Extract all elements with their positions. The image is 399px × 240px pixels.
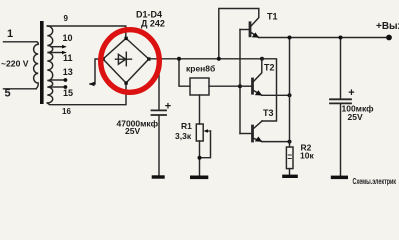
svg-text:T3: T3 — [263, 108, 274, 118]
wire main positive rail — [149, 58, 262, 60]
node bridge right — [147, 57, 150, 60]
node KREN output / base bus — [238, 84, 242, 88]
ground R1 — [190, 176, 208, 180]
transistor T3 base bar — [251, 126, 254, 141]
T3 emitter arrow — [255, 137, 262, 142]
transistor T2 collector — [253, 59, 261, 82]
svg-text:10: 10 — [63, 33, 73, 43]
wire T2 emitter to output bus — [262, 94, 290, 96]
tap 10 arrow — [62, 45, 67, 49]
node T1 collector on rail — [217, 57, 221, 61]
transistor T1 base wire — [240, 29, 249, 31]
node T2 emitter junction — [288, 93, 292, 97]
tap 15 end dot — [64, 85, 68, 89]
wire KREN input drop — [179, 59, 190, 86]
node bridge top — [124, 37, 127, 40]
transistor T3 base wire — [240, 133, 251, 135]
wire tap 9 to bridge top — [47, 26, 126, 38]
svg-text:Схемы.электрик: Схемы.электрик — [353, 177, 397, 186]
R2 bottom wire — [289, 169, 291, 175]
T2 emitter arrow — [255, 90, 262, 95]
node C2 on output line — [339, 36, 343, 40]
wire primary terminal 5 — [4, 88, 37, 90]
R1 wiper loop wire — [200, 131, 211, 158]
node KREN drop on rail — [177, 57, 181, 61]
tap 11 stub — [51, 52, 62, 54]
transistor T3 emitter — [253, 138, 262, 141]
node C1 on rail — [157, 57, 161, 61]
svg-text:+Вых: +Вых — [376, 21, 399, 32]
tap 13 end dot — [64, 78, 68, 82]
transistor T1 emitter — [251, 32, 259, 37]
wire output line — [259, 37, 389, 39]
svg-text:5: 5 — [5, 88, 11, 100]
svg-text:1: 1 — [7, 28, 13, 40]
svg-text:R1: R1 — [181, 121, 192, 131]
transistor T3 collector — [253, 121, 262, 129]
node output bus top — [288, 36, 292, 40]
wire KREN ground lead — [199, 95, 201, 124]
node R1 wiper junction — [198, 156, 202, 160]
svg-text:+: + — [348, 87, 354, 99]
ground C2 — [331, 176, 348, 180]
tap 11 arrow — [62, 51, 67, 55]
bridge rectifier D1-D4 diamond — [103, 38, 149, 83]
transformer secondary winding — [47, 26, 52, 103]
wire T3 collector loop — [262, 59, 277, 121]
ground C1 — [152, 175, 165, 178]
capacitor C2 bottom wire — [340, 104, 342, 175]
resistor R1 body — [196, 124, 203, 141]
svg-text:9: 9 — [64, 14, 69, 23]
node T3 emitter junction — [288, 140, 292, 144]
svg-text:10к: 10к — [300, 151, 314, 161]
ground R2 — [282, 175, 298, 178]
regulator U1 KREN8B box — [190, 78, 209, 95]
svg-text:13: 13 — [63, 67, 73, 77]
transistor T1 collector — [219, 9, 259, 59]
bridge diode symbol — [116, 52, 132, 65]
tap 13 stub — [51, 79, 64, 81]
node bridge bottom — [124, 81, 127, 84]
node bridge left — [101, 57, 104, 60]
svg-text:~220 V: ~220 V — [1, 58, 29, 68]
wire output bus vertical — [289, 38, 291, 148]
wire tap 16 to bridge bottom — [47, 83, 126, 105]
transistor T1 base bar — [249, 23, 252, 36]
R2 body marks — [288, 155, 291, 159]
resistor R2 body — [286, 147, 293, 169]
svg-text:T2: T2 — [264, 63, 275, 73]
svg-text:15: 15 — [63, 88, 73, 98]
wire base bus vertical — [239, 30, 241, 134]
svg-text:Д 242: Д 242 — [141, 18, 165, 28]
svg-text:T1: T1 — [267, 12, 278, 22]
svg-text:25V: 25V — [348, 112, 363, 122]
red annotation circle — [101, 30, 160, 93]
T1 emitter arrow — [252, 32, 259, 37]
svg-text:16: 16 — [62, 107, 71, 116]
transistor T2 base bar — [251, 79, 254, 93]
transformer primary winding — [34, 42, 39, 89]
svg-text:3,3к: 3,3к — [175, 131, 192, 141]
output terminal — [386, 35, 392, 41]
wire primary terminal 1 — [4, 41, 37, 43]
capacitor C2 plates — [330, 99, 351, 103]
wire bridge left AC input — [90, 59, 103, 84]
arrow to tap — [89, 82, 95, 86]
transformer TR1 core — [40, 21, 44, 104]
wire KREN output — [209, 85, 240, 87]
tap 10 stub — [51, 46, 62, 48]
capacitor C2 top wire — [340, 38, 342, 99]
svg-text:25V: 25V — [125, 126, 140, 136]
capacitor C1 top wire — [158, 59, 160, 110]
node rail end T2/T3 collectors — [260, 57, 264, 61]
wire T3 emitter to output bus — [262, 141, 290, 143]
svg-text:11: 11 — [63, 53, 73, 63]
svg-text:+: + — [165, 101, 171, 113]
tap 15 stub — [51, 86, 64, 88]
capacitor C1 bottom wire — [158, 116, 160, 176]
transistor T2 base wire — [240, 85, 251, 87]
transistor T2 emitter — [253, 90, 261, 95]
capacitor C1 plates — [152, 110, 167, 115]
R1 wiper arrow — [206, 130, 211, 132]
svg-text:крен8б: крен8б — [186, 64, 215, 74]
R1 bottom wire — [199, 141, 201, 175]
